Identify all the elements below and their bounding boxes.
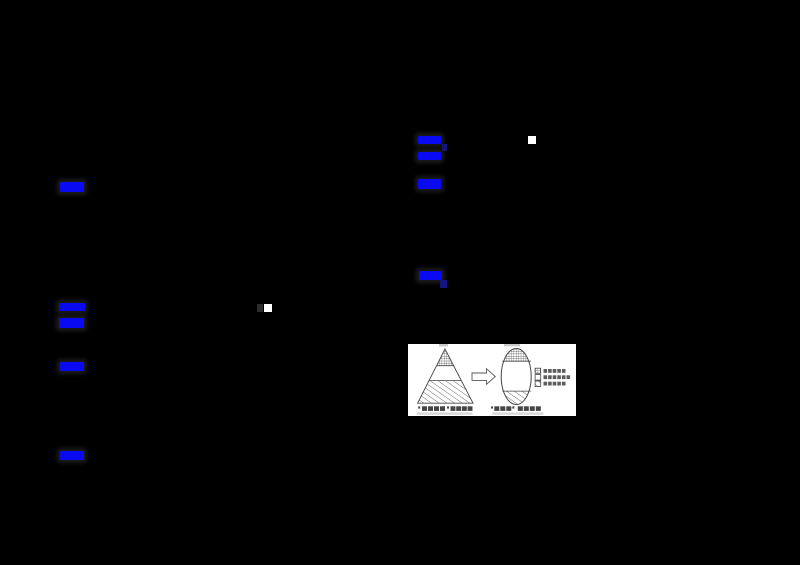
node caption2	[491, 406, 541, 411]
node bottomStrip1	[417, 412, 473, 414]
node grayGlyph	[257, 304, 263, 312]
node oliveBottomHatch	[501, 349, 531, 405]
node navy1	[442, 144, 447, 151]
node arrow	[472, 369, 495, 385]
node oliveTopHatch	[502, 333, 531, 361]
node caption1	[418, 406, 472, 411]
node pyramidTopHatch	[437, 349, 454, 366]
node blueL4	[60, 362, 84, 371]
node blueR2	[418, 152, 441, 160]
node legendText3	[544, 382, 566, 386]
node legendSq1	[535, 368, 541, 373]
node legendText1	[544, 369, 566, 373]
node blueL1	[60, 182, 84, 192]
node whiteSq2	[264, 304, 272, 312]
node blueL2	[59, 303, 85, 311]
node oliveLine2	[502, 390, 530, 392]
node oliveOutline	[501, 349, 531, 405]
node pyramidOutline	[418, 349, 473, 403]
node legendSq2	[535, 375, 541, 381]
node topBlip1	[439, 344, 448, 347]
node whiteSq1	[528, 136, 536, 144]
node legendSq3	[535, 381, 541, 387]
node legendText2	[544, 375, 571, 379]
node blueL5	[60, 451, 84, 460]
node navy2	[440, 280, 447, 288]
node pyramidBottomHatch	[418, 381, 473, 404]
node diagram	[408, 344, 576, 416]
node blueR1	[418, 136, 441, 144]
node pyramidLine1	[437, 365, 454, 367]
node topBlip2	[504, 344, 520, 346]
node blueR4	[419, 271, 442, 280]
node blueL3	[59, 318, 84, 328]
node pyramidLine2	[429, 380, 461, 382]
node oliveLine1	[502, 360, 530, 362]
node blueR3	[418, 179, 441, 189]
node bottomStrip2	[492, 412, 544, 414]
